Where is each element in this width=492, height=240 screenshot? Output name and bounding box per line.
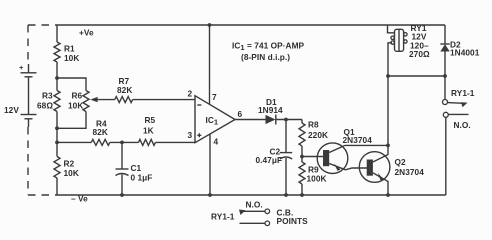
svg-text:(8-PIN d.i.p.): (8-PIN d.i.p.) bbox=[241, 52, 290, 62]
svg-text:R8: R8 bbox=[308, 120, 319, 130]
capacitor C1 bbox=[116, 142, 129, 195]
svg-text:R6: R6 bbox=[72, 91, 83, 101]
svg-text:N.O.: N.O. bbox=[246, 200, 263, 210]
relay contact RY1-1 (top right) bbox=[443, 76, 468, 107]
svg-text:68Ω: 68Ω bbox=[37, 100, 53, 110]
potentiometer R6 bbox=[57, 78, 89, 128]
svg-text:4: 4 bbox=[214, 137, 219, 147]
svg-text:220K: 220K bbox=[308, 130, 328, 140]
svg-text:6: 6 bbox=[238, 109, 243, 119]
svg-text:3: 3 bbox=[188, 130, 193, 140]
resistor R9 bbox=[299, 157, 305, 196]
resistor R3 bbox=[54, 78, 60, 128]
node: Q2 emitter ground junction bbox=[386, 193, 390, 197]
svg-text:N.O.: N.O. bbox=[454, 120, 471, 130]
resistor R7 bbox=[115, 97, 195, 103]
svg-text:Q2: Q2 bbox=[395, 157, 407, 167]
svg-text:R1: R1 bbox=[64, 44, 75, 54]
diode D2 1N4001 bbox=[440, 44, 449, 76]
svg-text:R2: R2 bbox=[64, 159, 75, 169]
svg-text:1K: 1K bbox=[143, 125, 154, 135]
svg-text:– Ve: – Ve bbox=[71, 194, 88, 204]
node: C2 ground junction bbox=[284, 193, 288, 197]
wire: D2 branch from rail bbox=[444, 25, 446, 44]
resistor R4 bbox=[57, 139, 139, 145]
resistor R5 bbox=[139, 139, 196, 145]
wire: top +Ve rail bbox=[57, 24, 445, 26]
node B junction (R3/R6 bottom) bbox=[55, 126, 59, 130]
node: relay-side junction bbox=[386, 74, 390, 78]
node: R4/R5/C1 junction bbox=[120, 141, 124, 145]
diode D1 1N914 bbox=[266, 115, 303, 125]
transistor Q1 2N3704 bbox=[317, 143, 348, 174]
svg-text:RY1-1: RY1-1 bbox=[211, 212, 235, 222]
node: pin4 rail junction bbox=[208, 193, 212, 197]
pin 7 wire to +Ve rail bbox=[209, 25, 211, 104]
transistor Q2 2N3704 bbox=[359, 152, 390, 195]
R6 wiper arrow bbox=[90, 97, 115, 102]
contact terminal wire bbox=[240, 221, 270, 226]
svg-text:12V: 12V bbox=[4, 105, 19, 115]
node A junction (R1/R3/R6) bbox=[55, 76, 59, 80]
svg-text:10K: 10K bbox=[64, 168, 79, 178]
wire: relay bottom tie line bbox=[388, 75, 445, 77]
node: D2-side junction bbox=[443, 74, 447, 78]
contact arm wire bbox=[239, 209, 270, 215]
svg-text:+: + bbox=[19, 63, 24, 72]
svg-text:2N3704: 2N3704 bbox=[395, 167, 425, 177]
svg-text:10K: 10K bbox=[68, 100, 83, 110]
relay coil RY1 bbox=[388, 25, 408, 76]
svg-text:1N914: 1N914 bbox=[258, 105, 283, 115]
node: D1/C2 junction bbox=[284, 118, 288, 122]
relay contact N.O. terminal bbox=[443, 112, 468, 195]
svg-text:C1: C1 bbox=[131, 163, 142, 173]
resistor R1 bbox=[54, 25, 60, 78]
battery 12V (dashed external leads) bbox=[19, 25, 57, 195]
svg-text:R5: R5 bbox=[145, 115, 156, 125]
svg-text:7: 7 bbox=[212, 92, 217, 102]
wire: junction to Q1 base bbox=[302, 156, 324, 158]
op-amp U1 (IC1 741) bbox=[195, 96, 235, 143]
svg-text:IC1: IC1 bbox=[206, 115, 219, 127]
svg-text:IC1 = 741 OP·AMP: IC1 = 741 OP·AMP bbox=[232, 41, 305, 53]
node: pin7 rail junction bbox=[208, 23, 212, 27]
pin 6 output wire bbox=[235, 119, 266, 121]
svg-text:RY1-1: RY1-1 bbox=[451, 88, 475, 98]
svg-text:270Ω: 270Ω bbox=[409, 49, 430, 59]
svg-text:82K: 82K bbox=[117, 85, 132, 95]
svg-text:0.47μF: 0.47μF bbox=[256, 155, 283, 165]
svg-text:POINTS: POINTS bbox=[277, 216, 309, 226]
svg-text:2N3704: 2N3704 bbox=[343, 135, 373, 145]
resistor R8 bbox=[299, 120, 305, 157]
node: collector junction bbox=[386, 144, 390, 148]
node: C1 ground junction bbox=[120, 193, 124, 197]
wire: node B to node C bbox=[56, 128, 58, 142]
wire: Q1 emitter to Q2 base bbox=[346, 168, 368, 170]
wire: -Ve bottom rail bbox=[57, 194, 446, 196]
node C junction (R4 tap) bbox=[55, 141, 59, 145]
node: R9 ground junction bbox=[300, 193, 304, 197]
resistor R2 bbox=[54, 142, 60, 195]
wire: relay feed vertical bbox=[387, 76, 389, 155]
wire: Q1 collector bus to relay line bbox=[345, 144, 388, 146]
svg-text:82K: 82K bbox=[93, 127, 108, 137]
svg-text:0 1μF: 0 1μF bbox=[131, 173, 153, 183]
node: R8/R9/Q1-base junction bbox=[300, 155, 304, 159]
svg-text:+Ve: +Ve bbox=[79, 28, 94, 38]
svg-text:100K: 100K bbox=[307, 174, 327, 184]
svg-text:1N4001: 1N4001 bbox=[450, 48, 480, 58]
svg-text:R3: R3 bbox=[42, 91, 53, 101]
capacitor C2 bbox=[280, 120, 292, 196]
pin 4 wire to -Ve rail bbox=[209, 135, 211, 196]
svg-text:10K: 10K bbox=[64, 53, 79, 63]
svg-text:2: 2 bbox=[188, 89, 193, 99]
